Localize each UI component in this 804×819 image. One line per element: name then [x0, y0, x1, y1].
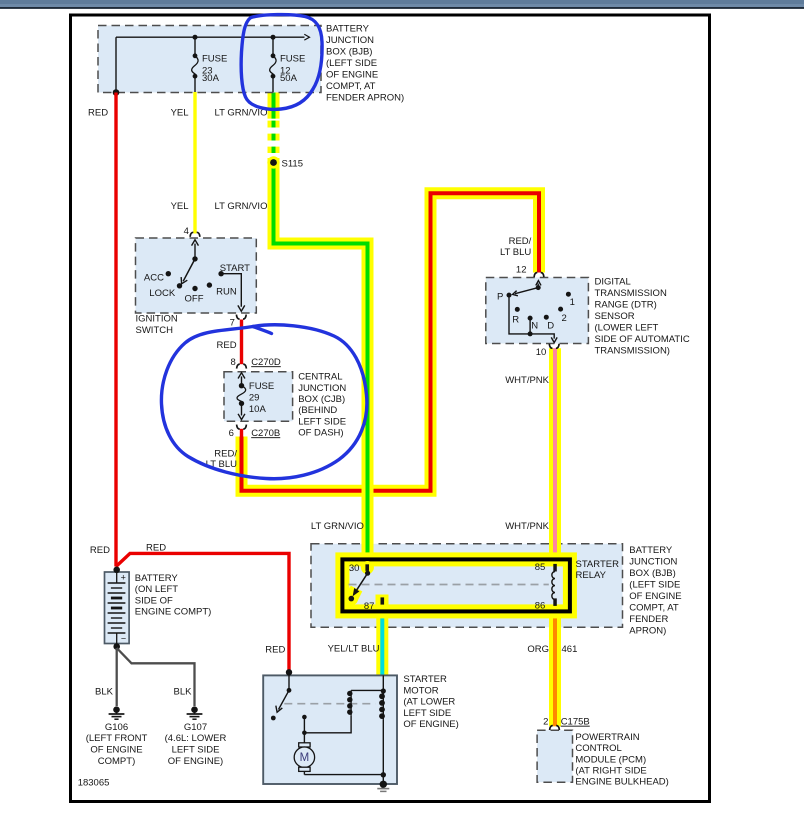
- svg-text:BLK: BLK: [174, 686, 193, 697]
- svg-text:LT GRN/VIO: LT GRN/VIO: [215, 201, 268, 212]
- svg-text:LT GRN/VIO: LT GRN/VIO: [311, 521, 364, 532]
- svg-text:S115: S115: [282, 158, 303, 169]
- svg-text:WHT/PNK: WHT/PNK: [505, 521, 549, 532]
- svg-text:BATTERY: BATTERY: [326, 23, 370, 34]
- svg-text:(AT LOWER: (AT LOWER: [403, 697, 455, 708]
- svg-text:SIDE OF: SIDE OF: [135, 595, 173, 606]
- svg-text:MODULE (PCM): MODULE (PCM): [575, 754, 646, 765]
- svg-text:YEL: YEL: [171, 108, 189, 119]
- svg-text:ENGINE COMPT): ENGINE COMPT): [135, 607, 212, 618]
- svg-text:OF ENGINE: OF ENGINE: [90, 745, 142, 756]
- svg-text:YEL: YEL: [171, 201, 189, 212]
- svg-text:30A: 30A: [202, 73, 220, 84]
- svg-text:LEFT SIDE: LEFT SIDE: [172, 745, 220, 756]
- svg-text:461: 461: [562, 644, 578, 655]
- svg-text:OF ENGINE): OF ENGINE): [168, 756, 223, 767]
- svg-text:29: 29: [249, 393, 260, 404]
- svg-text:30: 30: [349, 563, 360, 574]
- svg-text:50A: 50A: [280, 73, 298, 84]
- svg-text:LOCK: LOCK: [149, 288, 176, 299]
- svg-text:CENTRAL: CENTRAL: [298, 372, 342, 383]
- svg-text:BLK: BLK: [95, 686, 114, 697]
- svg-text:(LEFT SIDE: (LEFT SIDE: [629, 579, 680, 590]
- svg-text:87: 87: [364, 601, 375, 612]
- svg-text:OF ENGINE): OF ENGINE): [403, 719, 458, 730]
- svg-text:JUNCTION: JUNCTION: [298, 383, 346, 394]
- svg-text:183065: 183065: [78, 778, 110, 789]
- svg-text:BOX (CJB): BOX (CJB): [298, 394, 345, 405]
- svg-text:RED: RED: [265, 644, 285, 655]
- svg-text:(LOWER LEFT: (LOWER LEFT: [595, 322, 659, 333]
- svg-text:BATTERY: BATTERY: [135, 573, 179, 584]
- svg-text:2: 2: [562, 313, 567, 324]
- svg-text:JUNCTION: JUNCTION: [326, 35, 374, 46]
- svg-text:6: 6: [229, 428, 234, 439]
- svg-text:LEFT SIDE: LEFT SIDE: [403, 708, 451, 719]
- svg-text:LEFT SIDE: LEFT SIDE: [298, 416, 346, 427]
- svg-text:C270D: C270D: [251, 357, 281, 368]
- svg-text:+: +: [121, 573, 126, 583]
- svg-text:DIGITAL: DIGITAL: [595, 276, 631, 287]
- svg-text:(LEFT FRONT: (LEFT FRONT: [86, 733, 148, 744]
- svg-text:RED: RED: [217, 340, 237, 351]
- svg-text:RELAY: RELAY: [576, 570, 607, 581]
- svg-text:POWERTRAIN: POWERTRAIN: [575, 732, 639, 743]
- svg-text:RED: RED: [90, 545, 110, 556]
- svg-text:C270B: C270B: [251, 428, 280, 439]
- svg-text:R: R: [512, 314, 519, 325]
- svg-text:SWITCH: SWITCH: [136, 325, 174, 336]
- svg-text:BOX (BJB): BOX (BJB): [326, 46, 372, 57]
- svg-text:WHT/PNK: WHT/PNK: [505, 375, 549, 386]
- svg-text:86: 86: [535, 601, 546, 612]
- svg-text:(AT RIGHT SIDE: (AT RIGHT SIDE: [575, 766, 646, 777]
- svg-text:BOX (BJB): BOX (BJB): [629, 568, 675, 579]
- svg-text:RED/: RED/: [509, 236, 532, 247]
- svg-text:TRANSMISSION): TRANSMISSION): [595, 345, 670, 356]
- svg-text:RED/: RED/: [214, 448, 237, 459]
- svg-text:(LEFT SIDE: (LEFT SIDE: [326, 58, 377, 69]
- svg-text:G107: G107: [184, 722, 207, 733]
- svg-text:12: 12: [516, 264, 527, 275]
- svg-text:1: 1: [570, 297, 575, 308]
- svg-text:MOTOR: MOTOR: [403, 685, 438, 696]
- svg-text:CONTROL: CONTROL: [575, 743, 621, 754]
- svg-text:85: 85: [535, 562, 546, 573]
- svg-text:SIDE OF AUTOMATIC: SIDE OF AUTOMATIC: [595, 334, 690, 345]
- svg-text:APRON): APRON): [629, 625, 666, 636]
- svg-text:D: D: [547, 320, 554, 331]
- svg-text:OF ENGINE: OF ENGINE: [629, 591, 681, 602]
- svg-text:RED: RED: [146, 543, 166, 554]
- svg-text:YEL/LT BLU: YEL/LT BLU: [328, 644, 380, 655]
- svg-text:10: 10: [536, 347, 547, 358]
- svg-text:OFF: OFF: [185, 294, 204, 305]
- svg-text:ACC: ACC: [144, 272, 164, 283]
- svg-text:OF ENGINE: OF ENGINE: [326, 69, 378, 80]
- svg-text:G106: G106: [105, 722, 128, 733]
- svg-text:RUN: RUN: [216, 286, 237, 297]
- svg-text:C175B: C175B: [561, 717, 590, 728]
- svg-text:FUSE: FUSE: [280, 54, 305, 65]
- svg-text:BATTERY: BATTERY: [629, 545, 673, 556]
- svg-text:RED: RED: [88, 108, 108, 119]
- svg-text:COMPT): COMPT): [98, 756, 135, 767]
- svg-text:(ON LEFT: (ON LEFT: [135, 584, 178, 595]
- svg-text:(BEHIND: (BEHIND: [298, 405, 337, 416]
- svg-text:2: 2: [543, 717, 548, 728]
- svg-text:SENSOR: SENSOR: [595, 311, 635, 322]
- svg-text:M: M: [300, 752, 310, 764]
- svg-text:ORG: ORG: [527, 644, 549, 655]
- svg-text:P: P: [497, 291, 503, 302]
- svg-text:START: START: [220, 263, 250, 274]
- svg-text:(4.6L: LOWER: (4.6L: LOWER: [165, 733, 227, 744]
- svg-text:STARTER: STARTER: [576, 559, 620, 570]
- svg-text:COMPT, AT: COMPT, AT: [629, 602, 679, 613]
- svg-text:4: 4: [184, 226, 189, 237]
- svg-text:RANGE (DTR): RANGE (DTR): [595, 299, 657, 310]
- svg-text:TRANSMISSION: TRANSMISSION: [595, 288, 667, 299]
- svg-text:8: 8: [231, 357, 236, 368]
- svg-text:STARTER: STARTER: [403, 674, 447, 685]
- svg-text:−: −: [121, 633, 126, 643]
- svg-text:FENDER: FENDER: [629, 614, 668, 625]
- svg-text:LT GRN/VIO: LT GRN/VIO: [215, 108, 268, 119]
- svg-text:COMPT, AT: COMPT, AT: [326, 81, 376, 92]
- svg-text:LT BLU: LT BLU: [500, 247, 531, 258]
- svg-text:7: 7: [230, 318, 235, 329]
- svg-text:FUSE: FUSE: [202, 54, 227, 65]
- svg-text:JUNCTION: JUNCTION: [629, 556, 677, 567]
- svg-text:FENDER APRON): FENDER APRON): [326, 92, 404, 103]
- svg-text:IGNITION: IGNITION: [136, 313, 178, 324]
- svg-text:10A: 10A: [249, 404, 267, 415]
- svg-text:FUSE: FUSE: [249, 381, 274, 392]
- svg-text:N: N: [531, 320, 538, 331]
- svg-text:OF DASH): OF DASH): [298, 428, 343, 439]
- svg-text:ENGINE BULKHEAD): ENGINE BULKHEAD): [575, 777, 668, 788]
